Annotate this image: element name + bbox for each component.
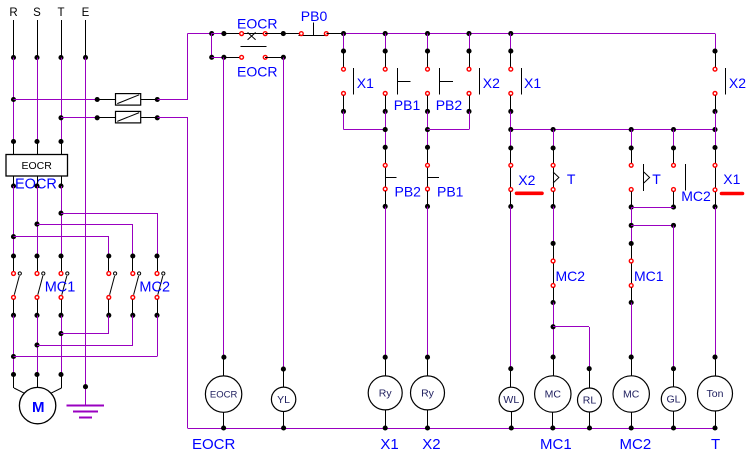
svg-text:X2: X2	[483, 75, 500, 91]
svg-text:Ton: Ton	[707, 388, 724, 400]
svg-text:Ry: Ry	[421, 388, 435, 400]
svg-text:RL: RL	[583, 395, 597, 407]
svg-text:PB0: PB0	[301, 8, 328, 24]
svg-text:EOCR: EOCR	[192, 436, 236, 453]
svg-text:MC1: MC1	[45, 280, 76, 296]
svg-text:X2: X2	[422, 436, 440, 453]
svg-text:X1: X1	[723, 171, 740, 187]
svg-text:MC: MC	[545, 389, 562, 401]
svg-text:X2: X2	[729, 75, 746, 91]
svg-text:MC2: MC2	[620, 436, 652, 453]
svg-text:X1: X1	[380, 436, 398, 453]
svg-text:YL: YL	[277, 394, 290, 406]
svg-text:EOCR: EOCR	[210, 389, 238, 400]
svg-text:EOCR: EOCR	[237, 64, 277, 80]
svg-text:S: S	[33, 7, 41, 19]
svg-text:T: T	[57, 7, 64, 19]
svg-text:R: R	[9, 7, 17, 19]
svg-text:PB1: PB1	[437, 184, 464, 200]
svg-text:PB1: PB1	[394, 97, 421, 113]
svg-text:MC1: MC1	[634, 268, 664, 284]
svg-text:MC1: MC1	[540, 436, 572, 453]
svg-text:MC: MC	[623, 389, 640, 401]
svg-text:EOCR: EOCR	[22, 160, 53, 172]
svg-text:X1: X1	[524, 75, 541, 91]
svg-text:GL: GL	[666, 394, 680, 406]
svg-text:E: E	[82, 7, 90, 19]
svg-text:MC2: MC2	[556, 268, 586, 284]
svg-text:Ry: Ry	[379, 388, 393, 400]
svg-text:T: T	[711, 436, 720, 453]
svg-text:M: M	[32, 399, 45, 416]
svg-text:T: T	[567, 171, 576, 187]
svg-text:EOCR: EOCR	[237, 16, 277, 32]
svg-text:MC2: MC2	[681, 188, 711, 204]
svg-text:PB2: PB2	[395, 184, 422, 200]
svg-text:T: T	[652, 171, 661, 187]
svg-text:PB2: PB2	[436, 97, 463, 113]
svg-text:X2: X2	[518, 172, 535, 188]
svg-text:WL: WL	[503, 394, 519, 406]
svg-text:X1: X1	[357, 75, 374, 91]
svg-text:MC2: MC2	[139, 280, 170, 296]
